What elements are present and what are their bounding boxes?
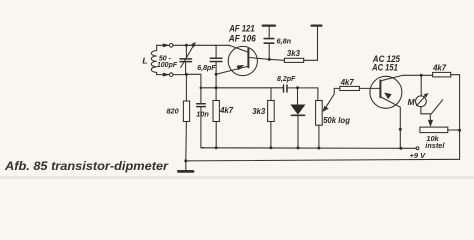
svg-text:AF 121: AF 121 — [228, 23, 254, 33]
terminal bar T1 — [263, 25, 275, 27]
transistor Q1 collector wire — [229, 45, 248, 52]
svg-text:L: L — [142, 55, 147, 65]
supply rail (inner, -9V) — [202, 147, 417, 150]
variable capacitor C1 plates — [180, 59, 192, 62]
capacitor C3 10n plates — [197, 104, 206, 107]
terminal bar T2 — [312, 25, 322, 27]
wire: wiper to R5 — [334, 87, 340, 89]
wire: down to diode D1 — [297, 88, 299, 105]
capacitor C4 6.8n leads — [268, 26, 270, 59]
resistor R4 3k3 (vertical) — [268, 101, 275, 122]
resistor R5 4k7 (horizontal) — [340, 86, 360, 90]
transistor Q2 base bar — [379, 80, 381, 97]
junction dot emitter wire / 4k7 — [215, 86, 218, 89]
plug arrow bottom — [163, 73, 169, 76]
wire: coil bottom to plug terminal — [157, 74, 170, 76]
svg-text:AF 106: AF 106 — [228, 34, 257, 44]
potentiometer P2 10k body — [420, 127, 448, 133]
diode D1 triangle — [291, 105, 305, 115]
transistor Q1 base bar — [247, 49, 249, 68]
junction dot emitter wire / 10n branch — [200, 87, 203, 90]
wire: pot bottom to supply rail — [318, 125, 320, 148]
resistor R1 820 — [183, 101, 189, 122]
svg-text:50k log: 50k log — [323, 116, 350, 125]
transistor Q1 emitter arrow — [237, 65, 244, 70]
capacitor C2 6.8pF leads — [215, 45, 217, 74]
svg-text:4k7: 4k7 — [432, 64, 447, 73]
wire: C5 to pot corner — [287, 88, 318, 101]
resistor R6 4k7 (horizontal) — [433, 72, 451, 77]
resistor R3 3k3 (horizontal) — [284, 58, 303, 62]
svg-text:3k3: 3k3 — [252, 107, 266, 116]
variable capacitor C1 50-100pF leads — [185, 45, 187, 58]
meter M1 needle — [416, 95, 426, 106]
wire: 10n to supply rail corner — [201, 107, 204, 148]
junction dot rail / pot — [317, 147, 320, 150]
wire: emitter node horizontal run — [201, 87, 283, 89]
potentiometer P1 wiper arm — [326, 88, 334, 107]
node B junction (Q1 emitter / C2) — [215, 73, 218, 76]
wire: top rail to Q1 — [173, 44, 229, 46]
junction dot diode tap — [296, 86, 299, 89]
wire: R6 right to edge vertical — [451, 75, 460, 160]
wire: node B down to emitter rail — [215, 74, 217, 88]
junction dot rail / diode — [297, 146, 300, 149]
wire: node E to R6 — [421, 74, 432, 76]
wire: socket to node A — [173, 74, 186, 76]
wire: node A over to 10n branch — [186, 74, 201, 103]
wire: 820 to ground rail — [185, 122, 188, 170]
transistor Q1 base lead — [248, 57, 269, 59]
ground rail (outer) — [186, 159, 460, 161]
capacitor C5 8.2pF plates — [284, 85, 288, 92]
transistor Q1 emitter wire — [216, 66, 248, 74]
ground — [178, 170, 193, 173]
battery terminal (open circle) — [416, 147, 419, 150]
svg-text:3k3: 3k3 — [287, 49, 301, 58]
meter M1 circle — [416, 96, 427, 107]
node A junction (coil bottom / 820 / var-cap) — [185, 73, 188, 76]
node C junction (Q1 base / 6.8n / 3k3) — [268, 58, 271, 61]
capacitor C2 6.8pF plates — [210, 58, 222, 61]
plug arrow top — [163, 44, 169, 47]
paper background — [0, 0, 474, 179]
wire: R2 to supply rail — [215, 122, 217, 148]
transistor Q1 AF121/AF106 circle — [228, 46, 257, 75]
wire: emitter rail down to R4 — [270, 88, 272, 101]
svg-text:820: 820 — [167, 107, 179, 116]
junction dot ground rail left end — [184, 159, 187, 162]
wire: R5 to Q2 base — [359, 87, 380, 89]
junction dot rail / Q2 emitter — [399, 147, 402, 150]
wire: node D to supply rail — [399, 129, 401, 148]
wire: coil top to plug terminal — [157, 44, 170, 46]
junction dot top wire / C1 — [185, 44, 188, 47]
junction dot rail / R4 — [269, 146, 272, 149]
svg-text:M: M — [408, 97, 416, 107]
svg-text:Afb. 85 transistor-dipmeter: Afb. 85 transistor-dipmeter — [4, 159, 169, 173]
wire: pot P2 right to edge vertical — [448, 129, 460, 131]
potentiometer P2 wiper arm — [430, 100, 443, 122]
transistor Q2 emitter wire — [380, 97, 400, 130]
transistor Q2 AC125/AC151 circle — [370, 76, 402, 108]
junction dot edge vertical / P2 — [458, 129, 461, 132]
wire: node A down to resistor 820 — [185, 74, 187, 101]
wire: node E down to meter — [420, 75, 422, 96]
wire: meter bottom to wiper arm of P2 — [421, 107, 430, 114]
svg-text:100pF: 100pF — [157, 62, 178, 69]
svg-text:6,8pF: 6,8pF — [197, 65, 216, 72]
svg-text:instel: instel — [425, 141, 445, 150]
plug socket bottom (open circle) — [169, 73, 173, 77]
capacitor C4 6.8n plates — [264, 39, 274, 44]
potentiometer P2 wiper arrowhead — [428, 120, 433, 126]
svg-text:4k7: 4k7 — [219, 106, 234, 115]
transistor Q2 emitter arrow — [385, 93, 392, 99]
potentiometer P1 50k log body — [316, 101, 323, 126]
coil L — [151, 45, 156, 74]
plug socket top (open circle) — [169, 44, 173, 48]
wire: R4 to supply rail — [270, 122, 272, 148]
variable capacitor C1 arrow — [181, 46, 194, 68]
potentiometer P1 wiper arrowhead — [323, 106, 329, 111]
resistor R2 4k7 — [213, 101, 219, 122]
svg-text:6,8n: 6,8n — [277, 36, 292, 45]
junction dot rail / R2 — [215, 146, 218, 149]
node D junction (Q2 emitter / pot wire) — [399, 128, 402, 131]
diode D1 cathode bar — [291, 114, 304, 116]
bottom scan shadow — [0, 176, 474, 179]
svg-text:8,2pF: 8,2pF — [277, 76, 296, 83]
svg-text:+9 V: +9 V — [410, 151, 427, 160]
wire: down to resistor R2 — [215, 88, 217, 101]
wire: R3 to terminal T2 — [304, 27, 318, 61]
node E junction (collector / meter / R6) — [420, 74, 423, 77]
svg-text:10n: 10n — [196, 110, 209, 119]
svg-text:AC 151: AC 151 — [371, 63, 398, 73]
meter M1 needle arrowhead — [424, 93, 428, 97]
wire: diode to supply rail — [297, 116, 299, 148]
transistor Q2 collector wire — [380, 75, 421, 81]
wire: node C to resistor R3 — [269, 58, 284, 61]
svg-text:4k7: 4k7 — [340, 78, 355, 87]
